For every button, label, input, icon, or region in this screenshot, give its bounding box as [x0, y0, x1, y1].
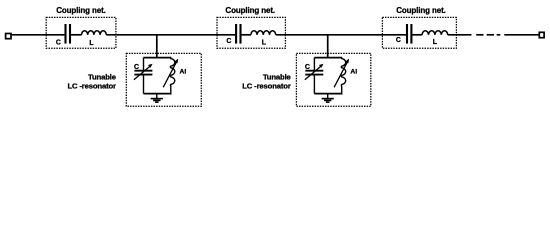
port P2 (right terminal square): [539, 32, 544, 37]
inductor L (coupling net 2): [251, 31, 276, 35]
svg-text:Coupling net.: Coupling net.: [396, 6, 446, 15]
inductor L (coupling net 1): [82, 31, 107, 35]
inductor L (coupling net 3): [422, 31, 448, 35]
resonator 2: wire bottom bar to ground: [327, 94, 329, 99]
resonator 2: wire capacitor to bottom bar: [313, 75, 315, 94]
ground (resonator 1): [151, 98, 163, 100]
svg-text:LC -resonator: LC -resonator: [242, 81, 291, 90]
capacitor C (coupling net 3) plates: [406, 24, 408, 44]
coupling net 2 dashed box: [217, 17, 285, 48]
wire: to port P2: [504, 34, 539, 36]
svg-text:Coupling net.: Coupling net.: [56, 6, 106, 15]
variable inductor (resonator 2) coil: [341, 58, 345, 95]
variable capacitor (resonator 2) plates: [305, 70, 323, 72]
svg-text:LC -resonator: LC -resonator: [67, 81, 116, 90]
svg-text:Tunable: Tunable: [263, 72, 292, 81]
resonator 1: bottom bar wire: [144, 93, 172, 95]
variable capacitor arrow (resonator 1): [134, 65, 151, 80]
port P1 (left terminal square): [6, 34, 11, 39]
svg-text:L: L: [433, 39, 437, 46]
tunable LC-resonator 1 dashed box: [126, 53, 201, 106]
resonator 2: top bar wire: [314, 57, 342, 59]
wire: C to L (coupling net 1): [71, 34, 82, 36]
svg-text:C: C: [226, 38, 231, 45]
ground (resonator 2): [322, 98, 334, 100]
svg-text:Al: Al: [350, 69, 357, 76]
resonator 1: wire bottom bar to ground: [156, 94, 158, 99]
wire: dashed continuation segment 1: [476, 34, 483, 36]
svg-text:C: C: [134, 64, 139, 71]
node J2: wire down to tunable LC-resonator 2: [327, 35, 329, 58]
wire: port P1 to capacitor of coupling net 1: [12, 34, 65, 36]
wire: L of coupling net 3 to dashed continuation: [448, 34, 472, 36]
wire: L of coupling net 1 to capacitor of coupling net 2 (through node J1): [106, 34, 235, 36]
svg-text:C: C: [396, 37, 401, 44]
svg-text:L: L: [89, 40, 93, 47]
variable inductor (resonator 1) coil: [170, 58, 174, 95]
capacitor C (coupling net 1) plates: [64, 24, 66, 44]
svg-text:C: C: [56, 40, 61, 47]
wire: dashed continuation segment 2: [487, 34, 494, 36]
resonator 2: bottom bar wire: [314, 93, 342, 95]
wire: C to L (coupling net 3): [412, 34, 422, 36]
coupling net 3 dashed box: [382, 17, 456, 48]
node J1: wire down to tunable LC-resonator 1: [156, 35, 158, 58]
wire: dashed continuation segment 3: [497, 34, 501, 36]
svg-text:Al: Al: [180, 69, 187, 76]
svg-text:L: L: [262, 40, 266, 47]
resonator 1: wire top bar to variable capacitor: [143, 58, 145, 71]
svg-text:C: C: [305, 64, 310, 71]
variable inductor arrow (resonator 1): [163, 62, 176, 88]
resonator 1: top bar wire: [144, 57, 172, 59]
variable capacitor arrow (resonator 2): [305, 65, 322, 80]
tunable LC-resonator 2 dashed box: [296, 53, 370, 106]
resonator 2: wire top bar to variable capacitor: [313, 58, 315, 71]
wire: C to L (coupling net 2): [242, 34, 252, 36]
coupling net 1 dashed box: [46, 17, 116, 48]
svg-text:Tunable: Tunable: [88, 72, 117, 81]
variable inductor arrow (resonator 2): [334, 62, 347, 88]
resonator 1: wire capacitor to bottom bar: [143, 75, 145, 94]
svg-text:Coupling net.: Coupling net.: [225, 6, 275, 15]
variable capacitor (resonator 1) plates: [134, 70, 152, 72]
wire: L of coupling net 2 to capacitor of coupling net 3 (through node J2): [276, 34, 406, 36]
capacitor C (coupling net 2) plates: [235, 24, 237, 44]
